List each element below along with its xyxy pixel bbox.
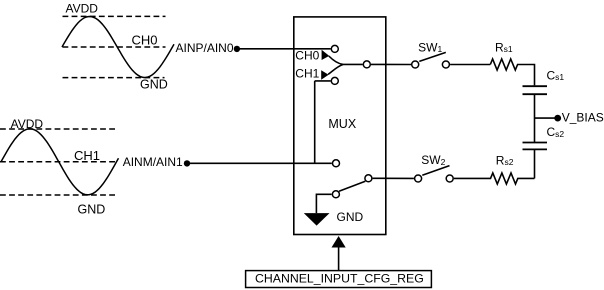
svg-text:Rs2: Rs2 — [496, 153, 514, 167]
svg-text:MUX: MUX — [328, 117, 356, 131]
svg-text:AVDD: AVDD — [66, 2, 99, 16]
svg-text:CH0: CH0 — [132, 33, 158, 48]
svg-text:SW2: SW2 — [421, 153, 445, 167]
svg-text:CHANNEL_INPUT_CFG_REG: CHANNEL_INPUT_CFG_REG — [255, 272, 424, 286]
svg-text:CH1: CH1 — [295, 66, 319, 80]
svg-text:GND: GND — [78, 203, 106, 217]
svg-text:AINP/AIN0: AINP/AIN0 — [176, 41, 234, 55]
svg-text:SW1: SW1 — [418, 40, 442, 54]
svg-text:AVDD: AVDD — [11, 117, 44, 131]
svg-text:V_BIAS: V_BIAS — [562, 111, 604, 125]
svg-text:Cs1: Cs1 — [547, 68, 565, 82]
svg-text:CH0: CH0 — [295, 49, 319, 63]
svg-text:AINM/AIN1: AINM/AIN1 — [123, 155, 183, 169]
svg-text:Cs2: Cs2 — [547, 125, 565, 139]
svg-text:Rs1: Rs1 — [495, 40, 513, 54]
svg-text:GND: GND — [337, 210, 364, 224]
svg-text:CH1: CH1 — [74, 148, 100, 163]
svg-text:GND: GND — [140, 78, 168, 92]
